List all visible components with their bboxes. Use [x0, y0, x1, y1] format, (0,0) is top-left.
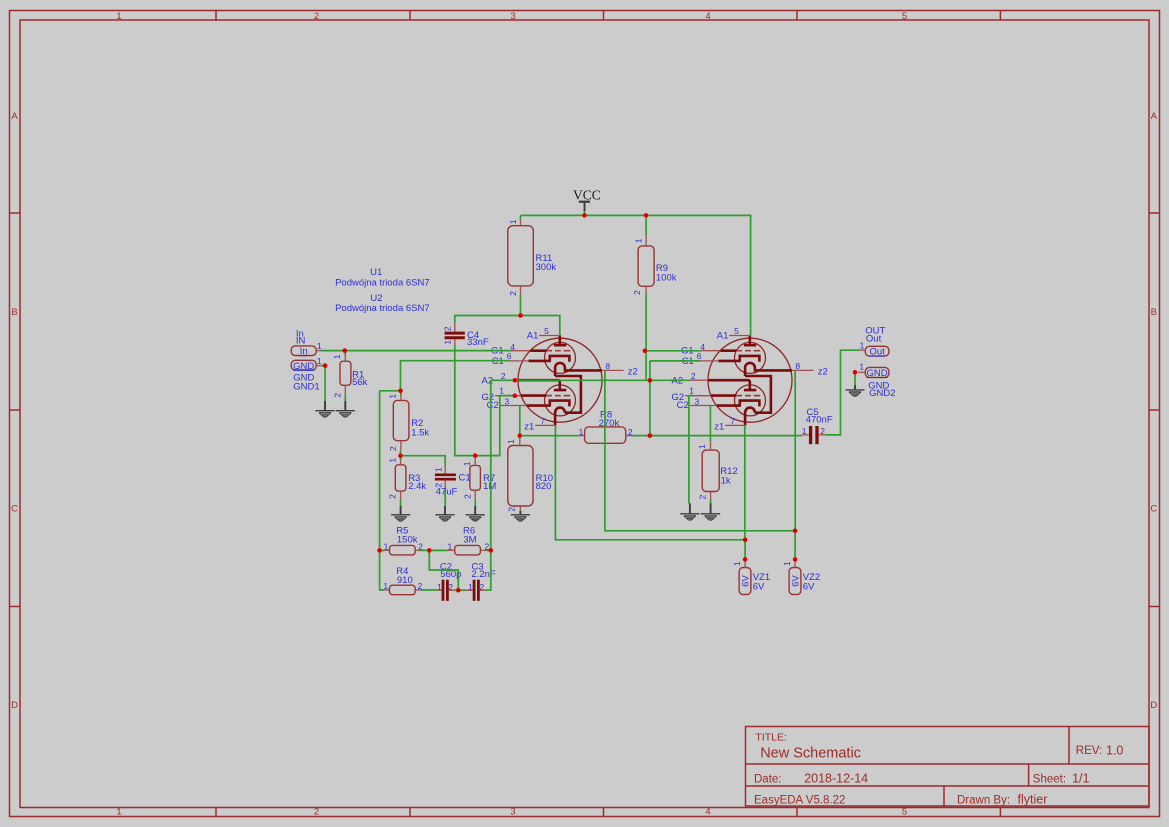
U2 triode A grid dashes: [736, 350, 760, 352]
U2 triode A circle: [735, 342, 766, 373]
wire A2 net down to R6.2: [490, 380, 492, 550]
svg-text:EasyEDA V5.8.22: EasyEDA V5.8.22: [754, 794, 845, 806]
capacitor C5: [802, 407, 833, 444]
junction R3.1: [398, 453, 403, 458]
junction R5.2/R6.1: [427, 548, 432, 553]
port GND2: [858, 362, 895, 399]
junction R7.1: [473, 453, 478, 458]
wire z1 net to R8.1: [520, 435, 579, 437]
svg-text:1: 1: [506, 439, 516, 444]
resistor R11: [508, 219, 557, 296]
junction VZ1 top: [743, 538, 748, 543]
U2 triode A grid feed: [720, 349, 736, 352]
U2 pin 3 C2: [690, 405, 717, 407]
zener VZ1: [732, 559, 770, 594]
svg-text:1: 1: [802, 426, 807, 436]
wire GND1 port stub: [321, 365, 325, 367]
wire VZ1 stub: [744, 540, 746, 560]
U1 triode A grid feed: [530, 349, 546, 352]
ground at GND2 port: [845, 385, 864, 396]
wire U1 z1 down to VZ1: [555, 425, 745, 539]
ground at C1: [435, 506, 454, 521]
capacitor C3: [466, 561, 496, 601]
svg-text:1: 1: [317, 341, 322, 351]
svg-text:2: 2: [508, 291, 518, 296]
svg-text:2: 2: [691, 371, 696, 381]
capacitor C1: [433, 466, 470, 497]
wire R9.2 down to U2 G1 and A2 net: [645, 293, 647, 380]
svg-text:2: 2: [314, 11, 319, 22]
power flag VCC: [573, 188, 601, 212]
svg-text:5: 5: [902, 807, 907, 818]
resistor R6: [447, 525, 490, 555]
wire R2.1 up to U1 C1: [401, 361, 510, 391]
op-amp-like tube U2 (dual triode 6SN7, right): [672, 326, 828, 433]
resistor R7: [462, 458, 496, 500]
ground at R10: [511, 511, 530, 521]
junction VZ2 pin: [793, 557, 798, 562]
svg-text:8: 8: [795, 361, 800, 371]
junction R10.1: [518, 433, 523, 438]
U2 pin 6 C1: [693, 360, 719, 362]
ground at GND1 port: [315, 401, 334, 417]
U2 triode B circle: [735, 385, 766, 416]
resistor R1: [332, 354, 367, 397]
port GND1: [291, 356, 322, 393]
svg-text:1: 1: [468, 582, 473, 592]
wire U2 C1 branch: [650, 361, 700, 436]
U2 triode B grid dashes: [736, 395, 760, 397]
wire U2 z2 down to VZ2: [794, 370, 796, 531]
U1 triode A cathode hook to pin 8: [555, 363, 602, 376]
svg-text:1.5k: 1.5k: [411, 427, 429, 438]
svg-text:4: 4: [705, 11, 710, 22]
ground at R1: [336, 401, 355, 417]
svg-text:6: 6: [507, 351, 512, 361]
svg-text:1: 1: [633, 238, 643, 243]
U2 pin 1 G2: [685, 395, 711, 397]
svg-text:2: 2: [314, 807, 319, 818]
wire C2.2 to C3.1: [454, 589, 466, 591]
wire U2 z1 down to VZ1: [744, 425, 746, 539]
svg-text:2: 2: [507, 507, 517, 512]
wire node R2.1 horizontal: [380, 391, 401, 396]
wire U2 G1: [645, 350, 701, 352]
svg-text:7: 7: [540, 416, 545, 426]
junction R11.2: [518, 313, 523, 318]
svg-text:1: 1: [860, 340, 865, 350]
svg-text:3M: 3M: [463, 534, 476, 545]
svg-text:3: 3: [510, 11, 515, 22]
svg-text:A: A: [11, 111, 18, 122]
U1 pin 2 A2: [498, 379, 518, 381]
wire C1.2 to ground: [444, 490, 446, 506]
svg-text:B: B: [11, 307, 17, 318]
U1 internal route: [555, 376, 581, 413]
svg-text:z1: z1: [714, 422, 724, 433]
U2 pin number labels: [689, 326, 800, 426]
U1 triode A cathode: [529, 356, 570, 362]
wire R8.2 to C5.1: [632, 435, 802, 437]
U1 triode A grid dashes: [546, 350, 570, 352]
resistor R2: [388, 394, 430, 451]
svg-text:47uF: 47uF: [436, 486, 458, 497]
wire VCC rail: [521, 215, 751, 335]
svg-text:1: 1: [782, 561, 792, 566]
svg-text:1: 1: [859, 362, 864, 372]
wire R1 top: [344, 351, 346, 357]
wire R11.1 to U1 A1: [521, 316, 560, 336]
wire R6.2 stub: [486, 549, 491, 551]
junction R5.1: [377, 548, 382, 553]
svg-text:2: 2: [480, 582, 485, 592]
svg-text:470nF: 470nF: [806, 415, 833, 426]
svg-text:Date:: Date:: [754, 773, 782, 785]
svg-text:270k: 270k: [599, 418, 620, 429]
junction R9.1: [644, 213, 649, 218]
U1 pin 6 C1: [503, 360, 529, 362]
wire R10.2 to ground: [519, 510, 521, 512]
U2 triode B anode: [708, 380, 756, 390]
U1 triode A anode: [554, 336, 566, 346]
svg-text:6: 6: [697, 351, 702, 361]
resistor R9: [632, 236, 677, 295]
U2 triode A cathode: [719, 356, 760, 362]
wire U1 C2 down to R10.1: [519, 406, 521, 438]
svg-text:1k: 1k: [721, 475, 731, 486]
wire R5.2 to R6.1: [420, 549, 447, 551]
wire R12.2 to ground: [710, 500, 712, 504]
svg-text:Podwójna trioda 6SN7: Podwójna trioda 6SN7: [335, 278, 430, 289]
svg-text:1: 1: [697, 444, 707, 449]
wire R7.1 stub: [474, 456, 476, 458]
svg-text:2: 2: [632, 290, 642, 295]
junction A2 net: [648, 378, 653, 383]
junction VZ2 top: [793, 529, 798, 534]
svg-text:Drawn By:: Drawn By:: [957, 794, 1010, 806]
svg-text:D: D: [1150, 700, 1157, 711]
wire R4.2 to C2.1: [421, 589, 437, 591]
U2 pin 8 z2: [792, 369, 814, 371]
svg-text:D: D: [11, 700, 18, 711]
svg-text:TITLE:: TITLE:: [755, 732, 787, 744]
svg-text:6V: 6V: [741, 575, 752, 587]
ground at R3: [391, 506, 410, 521]
svg-text:C: C: [1150, 504, 1157, 515]
svg-text:910: 910: [397, 575, 413, 586]
svg-text:6V: 6V: [791, 575, 802, 587]
svg-text:2: 2: [448, 582, 453, 592]
wire R3.1 stub: [400, 456, 402, 460]
svg-text:B: B: [1151, 307, 1157, 318]
svg-text:1: 1: [443, 340, 453, 345]
svg-text:Out: Out: [869, 347, 885, 358]
svg-text:6V: 6V: [753, 582, 765, 593]
wire U2 C2 down to R12.1: [709, 406, 711, 442]
svg-text:2: 2: [820, 426, 825, 436]
junction GND1: [323, 363, 328, 368]
wire C4.1 to R7.1 to U1 G2: [455, 345, 515, 456]
svg-text:100k: 100k: [656, 273, 677, 284]
wire U2 G2 to ground: [689, 396, 694, 504]
ground at U2 G2: [680, 503, 699, 519]
zener VZ2: [782, 559, 820, 594]
op-amp-like tube U1 (dual triode 6SN7, left): [482, 326, 638, 433]
svg-text:1/1: 1/1: [1072, 771, 1089, 785]
capacitor C2: [437, 561, 462, 601]
U2 pin 7 z1: [725, 424, 745, 426]
capacitor C4: [443, 323, 489, 348]
U1 triode B grid feed: [521, 394, 546, 397]
svg-text:C: C: [11, 504, 18, 515]
resistor R10: [506, 438, 553, 512]
svg-text:8: 8: [605, 361, 610, 371]
svg-text:2: 2: [443, 326, 453, 331]
svg-text:2: 2: [698, 494, 708, 499]
U2 triode A cathode hook to pin 8: [745, 363, 792, 376]
U1 U2 designator labels: [335, 267, 430, 314]
svg-text:3: 3: [505, 396, 510, 406]
U1 pin 3 C2: [500, 405, 526, 407]
svg-text:2.2nF: 2.2nF: [471, 569, 495, 580]
U1 pin 7 z1: [535, 424, 555, 426]
svg-text:5: 5: [544, 326, 549, 336]
wire A2 net horizontal U1 to U2: [491, 379, 689, 381]
wire R9.1 stub: [645, 215, 647, 235]
svg-text:z2: z2: [628, 367, 638, 378]
U1 pin name labels: [482, 330, 638, 432]
svg-text:1: 1: [499, 385, 504, 395]
svg-text:3: 3: [510, 807, 515, 818]
svg-text:z2: z2: [818, 367, 828, 378]
svg-text:1.0: 1.0: [1106, 743, 1123, 757]
wire R6.2 node down to C3.2: [486, 550, 491, 590]
svg-text:1: 1: [317, 356, 322, 366]
wire U1 G2 corner: [500, 395, 515, 397]
svg-text:IN: IN: [296, 335, 306, 346]
U2 triode B cathode hook to pin 7: [745, 408, 755, 426]
svg-text:5: 5: [734, 326, 739, 336]
wire left vertical R2.1 to R4.1: [380, 391, 385, 590]
U1 pin 8 z2: [602, 369, 624, 371]
svg-text:1: 1: [732, 561, 742, 566]
U2 triode B grid feed: [711, 394, 736, 397]
wire VCC flag stem: [584, 211, 586, 215]
svg-text:1: 1: [116, 11, 121, 22]
svg-text:In: In: [300, 346, 308, 357]
junction R8.2: [648, 433, 653, 438]
svg-text:C1: C1: [459, 472, 471, 483]
U1 envelope circle: [518, 338, 602, 422]
port OUT: [860, 325, 889, 357]
junction IN/R1: [342, 348, 347, 353]
svg-text:Podwójna trioda 6SN7: Podwójna trioda 6SN7: [335, 303, 430, 314]
svg-text:U1: U1: [370, 267, 382, 278]
svg-text:1M: 1M: [483, 481, 496, 492]
junction R6.2: [489, 548, 494, 553]
svg-text:56k: 56k: [352, 377, 368, 388]
U1 triode B circle: [545, 385, 576, 416]
wire R2.2 to C1.1: [401, 451, 446, 466]
resistor R3: [388, 458, 427, 500]
svg-text:VCC: VCC: [573, 188, 601, 203]
svg-text:New Schematic: New Schematic: [760, 746, 861, 762]
U1 pin 5 A1: [539, 335, 560, 337]
svg-text:7: 7: [730, 416, 735, 426]
wire R7.2 to ground: [474, 500, 476, 506]
svg-text:1: 1: [433, 467, 443, 472]
svg-text:1: 1: [388, 458, 398, 463]
wire U1 z2 down to VZ2: [605, 370, 795, 530]
svg-text:820: 820: [536, 481, 552, 492]
wire VZ2 stub: [794, 531, 796, 560]
junction U1 G2: [513, 393, 518, 398]
wire IN port to U1 G1: [321, 350, 513, 352]
svg-text:1: 1: [448, 542, 453, 552]
junction GND2: [853, 370, 858, 375]
svg-text:150k: 150k: [397, 534, 418, 545]
svg-text:Out: Out: [866, 334, 882, 345]
svg-text:Sheet:: Sheet:: [1033, 773, 1066, 785]
svg-text:4: 4: [705, 807, 710, 818]
U2 triode A anode: [744, 336, 756, 346]
svg-text:REV:: REV:: [1076, 745, 1102, 757]
U2 pin 4 G1: [700, 350, 720, 352]
U1 triode B anode: [518, 380, 566, 390]
svg-text:1: 1: [689, 385, 694, 395]
junction VZ1 pin: [743, 557, 748, 562]
wire R1 bottom to ground: [344, 394, 346, 401]
title block: [746, 727, 1150, 807]
wire R11.2 to C4.2: [455, 295, 521, 323]
svg-text:C2: C2: [487, 400, 499, 411]
svg-text:1: 1: [388, 394, 398, 399]
svg-text:300k: 300k: [536, 262, 557, 273]
svg-text:5: 5: [902, 11, 907, 22]
wire R5.2 node down to C2.2 C3.1 node: [429, 550, 458, 590]
svg-text:1: 1: [116, 807, 121, 818]
svg-text:1: 1: [462, 461, 472, 466]
wire C5.2 to OUT port: [826, 350, 860, 435]
U1 pin 1 G2: [495, 395, 521, 397]
svg-text:GND2: GND2: [869, 388, 895, 399]
U1 triode A circle: [545, 342, 576, 373]
U2 pin 5 A1: [729, 335, 750, 337]
svg-text:A1: A1: [717, 330, 729, 341]
ground at R7: [466, 506, 485, 521]
svg-text:2: 2: [388, 494, 398, 499]
svg-text:2.4k: 2.4k: [408, 481, 426, 492]
svg-text:1: 1: [579, 427, 584, 437]
U2 pin 2 A2: [688, 379, 708, 381]
svg-text:A: A: [1151, 111, 1158, 122]
svg-text:2: 2: [501, 371, 506, 381]
svg-text:flytier: flytier: [1018, 792, 1048, 806]
svg-text:z1: z1: [524, 422, 534, 433]
junction C2.2/C3.1: [456, 588, 461, 593]
port IN: [291, 328, 322, 357]
U1 pin 4 G1: [510, 350, 530, 352]
svg-text:GND: GND: [867, 368, 888, 379]
svg-text:2: 2: [463, 494, 473, 499]
svg-text:2018-12-14: 2018-12-14: [804, 771, 868, 785]
svg-text:1: 1: [508, 219, 518, 224]
svg-text:A1: A1: [527, 330, 539, 341]
svg-text:1: 1: [437, 582, 442, 592]
svg-text:33nF: 33nF: [467, 337, 489, 348]
resistor R8: [579, 409, 633, 443]
U2 triode B cathode: [717, 401, 760, 407]
junction R2.1: [398, 389, 403, 394]
svg-text:GND: GND: [293, 361, 314, 372]
U1 triode B cathode: [527, 401, 570, 407]
resistor R12: [697, 441, 738, 499]
U1 triode B cathode hook to pin 7: [555, 408, 565, 426]
wire GND1 port to ground: [324, 366, 326, 402]
svg-text:6V: 6V: [803, 582, 815, 593]
resistor R4: [383, 566, 422, 595]
svg-text:3: 3: [695, 396, 700, 406]
U2 pin name labels: [672, 330, 828, 432]
junction U1 A2: [513, 378, 518, 383]
junction dots: [323, 213, 858, 592]
wire R5.1 stub: [380, 549, 385, 551]
svg-text:2: 2: [333, 393, 343, 398]
resistor R5: [384, 525, 424, 555]
svg-text:1: 1: [332, 354, 342, 359]
U2 internal route: [745, 376, 771, 413]
svg-text:C2: C2: [677, 400, 689, 411]
ground at R12: [701, 503, 720, 519]
svg-text:2: 2: [388, 446, 398, 451]
wire GND2 port to ground: [854, 372, 856, 385]
svg-text:GND1: GND1: [293, 382, 319, 393]
junction VCC: [582, 213, 587, 218]
wire R3.2 to ground: [400, 500, 402, 506]
junction U2 G1: [643, 349, 648, 354]
U1 pin number labels: [499, 326, 610, 426]
U2 envelope circle: [708, 338, 792, 422]
U1 triode B grid dashes: [546, 395, 570, 397]
